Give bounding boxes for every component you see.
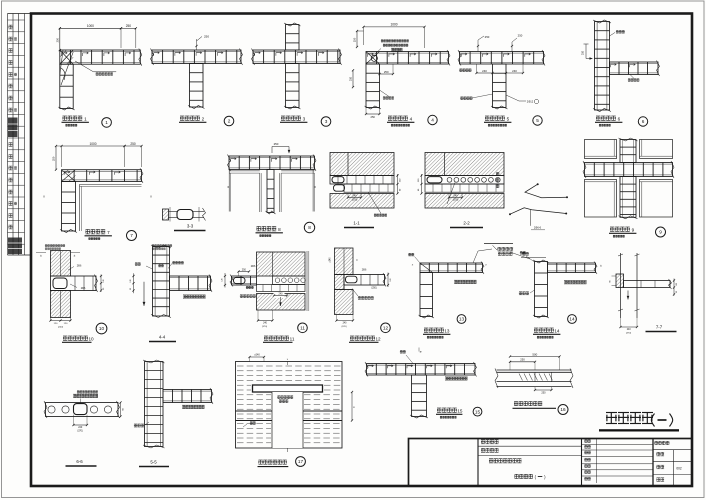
title block small col rows — [582, 444, 654, 446]
svg-text:(240): (240) — [58, 327, 63, 329]
detail 5 bubble — [533, 116, 542, 125]
detail 17 bubble — [296, 457, 306, 467]
detail 4 bottom dim — [366, 113, 380, 115]
section 4-4 boxed note — [184, 296, 186, 298]
detail 11 bottom dim — [258, 320, 273, 322]
detail 16 bars — [497, 369, 572, 371]
section 5-5 boxed note — [183, 406, 185, 408]
small note under detail 7 — [45, 245, 47, 247]
detail 1 bubble — [102, 118, 112, 128]
detail 6 leader note bottom — [630, 75, 634, 79]
section 7-7 bottom dim — [621, 326, 638, 328]
detail 14 leaders — [520, 252, 523, 255]
svg-text:6-6: 6-6 — [76, 459, 83, 464]
svg-text:10: 10 — [88, 336, 94, 341]
detail 11 wall face lines right — [306, 251, 308, 311]
detail 9 bubble — [656, 227, 666, 237]
detail 6 leader note top — [610, 33, 616, 37]
left title strip table — [7, 14, 9, 256]
detail 17 right dim — [351, 392, 353, 421]
svg-text:250: 250 — [274, 142, 279, 146]
section 2-2 leader — [447, 183, 455, 205]
detail 6 label — [596, 116, 600, 120]
svg-text:17: 17 — [298, 459, 304, 464]
svg-text:250: 250 — [520, 358, 525, 362]
svg-text:3: 3 — [303, 116, 306, 121]
detail 14 bubble — [568, 315, 577, 324]
detail 8 wall faces and ceiling lines — [259, 173, 261, 212]
svg-text:8: 8 — [308, 225, 311, 230]
svg-text:2: 2 — [202, 116, 205, 121]
detail 2 ring-beam tee — [152, 50, 241, 64]
detail 4 bubble — [428, 115, 437, 124]
detail 5 leader 2d12 — [506, 95, 526, 101]
svg-text:≥240: ≥240 — [254, 353, 260, 356]
detail 15 inverted tee — [367, 364, 476, 376]
section 7-7 arrow — [627, 291, 629, 300]
svg-text:7: 7 — [107, 230, 110, 235]
svg-text:250: 250 — [350, 76, 353, 81]
detail 10 label — [63, 336, 67, 340]
detail 9 horizontal beam — [585, 163, 673, 177]
detail 1 corner diagonals — [60, 50, 73, 64]
section 6-6 annotation — [77, 391, 79, 393]
svg-text:4: 4 — [431, 118, 434, 123]
svg-text:(250): (250) — [371, 287, 377, 289]
detail 17 center line — [287, 362, 289, 366]
detail 5 inner dims — [477, 72, 493, 74]
detail 8 label — [257, 227, 261, 231]
detail 4 leader note — [380, 90, 390, 97]
detail 2 dim 250 — [196, 39, 198, 50]
svg-text:14: 14 — [554, 328, 560, 333]
svg-text:250: 250 — [353, 37, 357, 42]
detail 4 inner dim 250 — [380, 73, 394, 75]
detail 17 top dim — [250, 356, 265, 358]
detail 16 bottom dim — [535, 389, 552, 391]
svg-text:1000: 1000 — [390, 23, 397, 27]
detail 13 corner beam — [420, 263, 483, 273]
section 2-2 wall hollow slab section — [425, 153, 504, 176]
detail 3 label — [281, 116, 285, 120]
sheet title big — [606, 413, 617, 424]
svg-text:15: 15 — [475, 409, 481, 414]
detail 1 ring-beam corner — [60, 27, 121, 29]
detail 3 bubble — [321, 117, 331, 127]
detail 4 label — [388, 116, 392, 120]
svg-text:10: 10 — [99, 326, 105, 331]
svg-text:2Φ6: 2Φ6 — [362, 269, 367, 272]
svg-text:ø: ø — [420, 350, 422, 354]
detail 11 circles band — [273, 276, 306, 285]
svg-text:250: 250 — [371, 115, 376, 119]
detail 10 right dims — [100, 275, 102, 293]
svg-text:2Φ6: 2Φ6 — [81, 287, 86, 290]
detail 7 bubble — [127, 231, 137, 241]
left strip text cells — [9, 25, 13, 29]
svg-text:2Φ6-6: 2Φ6-6 — [534, 226, 542, 230]
detail 9 label — [610, 227, 614, 231]
detail 16 label — [514, 402, 518, 406]
section 4-4 down arrow — [143, 282, 145, 306]
detail 11 lower band — [257, 285, 306, 292]
svg-text:5-5: 5-5 — [150, 460, 157, 465]
svg-text:II: II — [150, 195, 152, 199]
detail 17 ring beam band — [236, 410, 273, 412]
svg-text:12: 12 — [375, 336, 381, 341]
detail 17 center annotation — [278, 396, 281, 399]
detail 7 label — [86, 230, 90, 234]
left strip dense block upper — [8, 118, 18, 138]
svg-text:9: 9 — [659, 230, 662, 235]
svg-text:(370): (370) — [77, 431, 83, 433]
svg-text:6: 6 — [618, 116, 621, 121]
detail 8 dim 250 — [272, 147, 289, 154]
detail 3 ring-beam cross — [253, 50, 340, 64]
svg-text:15: 15 — [457, 408, 463, 413]
svg-text:240: 240 — [352, 194, 357, 197]
section 7-7 wall with beam — [620, 253, 622, 318]
svg-text:250: 250 — [126, 24, 132, 28]
svg-text:16: 16 — [560, 407, 566, 412]
detail 4 left dim — [352, 70, 354, 87]
detail 17 door opening — [272, 392, 303, 448]
svg-text:(370): (370) — [453, 199, 459, 202]
section 1-1 leader — [368, 192, 381, 213]
svg-text:14: 14 — [569, 317, 575, 322]
svg-text:250: 250 — [384, 70, 389, 74]
detail 4 ring-beam corner with notes — [364, 26, 425, 28]
detail 5 ring-beam tee with dims — [460, 52, 544, 65]
section 4-4 wall with beam — [153, 247, 170, 317]
title block right col labels — [655, 441, 658, 444]
detail 8 bubble — [304, 222, 314, 232]
detail 6 bubble — [638, 117, 647, 126]
section 2-2 left dims — [421, 174, 423, 194]
title block small col labels — [585, 440, 588, 443]
svg-text:5: 5 — [507, 116, 510, 121]
svg-text:240: 240 — [482, 69, 487, 73]
detail 5 dark note masonry — [460, 69, 463, 72]
detail 17 band label — [250, 422, 253, 425]
svg-text:250: 250 — [242, 268, 247, 271]
detail 15 bubble — [473, 407, 482, 416]
svg-text:≥240: ≥240 — [329, 257, 332, 263]
detail 13 label — [424, 328, 428, 332]
svg-text:002: 002 — [676, 467, 682, 471]
detail 14 dark note left — [519, 292, 522, 295]
section 4-4 leader notes — [146, 266, 153, 269]
detail 15 label — [437, 408, 441, 412]
detail 11 bubble — [298, 323, 308, 333]
detail 12 beam from hatched wall — [335, 248, 354, 275]
detail 11 label — [264, 336, 268, 340]
detail 16 bubble — [558, 405, 568, 415]
section 5-5 wall with beam — [145, 362, 164, 447]
svg-text:4-4: 4-4 — [159, 335, 166, 340]
detail 7 interior finish lines — [80, 183, 142, 185]
section 2-2 core circles — [447, 177, 452, 182]
title block texts — [481, 440, 485, 444]
svg-text:250: 250 — [204, 35, 209, 39]
svg-text:250: 250 — [518, 34, 523, 38]
svg-text:240: 240 — [453, 194, 458, 197]
svg-text:250: 250 — [52, 156, 56, 161]
detail 13 bubble — [457, 315, 466, 324]
svg-text:12: 12 — [383, 326, 389, 331]
detail 13 leaders — [409, 253, 412, 256]
section 3-3 slab piece — [163, 209, 169, 220]
detail 1 label — [63, 116, 67, 120]
section 2-2 lower band — [425, 184, 504, 192]
svg-text:6: 6 — [642, 119, 645, 124]
svg-text:3: 3 — [325, 119, 328, 124]
svg-text:7: 7 — [130, 233, 133, 238]
section 7-7 right dims — [673, 279, 675, 296]
svg-text:1-1: 1-1 — [353, 221, 360, 226]
detail 10 bottom dim — [51, 320, 71, 322]
svg-text:11: 11 — [300, 326, 305, 331]
svg-text:240: 240 — [78, 426, 83, 429]
detail 8 center wall core — [267, 170, 274, 213]
section 2-2 dim 240 — [449, 197, 462, 199]
svg-text:250: 250 — [541, 391, 546, 394]
left strip dense block lower — [8, 238, 22, 255]
svg-text:11: 11 — [290, 336, 295, 341]
section 1-1 right dims — [397, 174, 399, 194]
detail 6 left bent dim — [586, 44, 593, 59]
svg-text:2-2: 2-2 — [463, 221, 470, 226]
detail 9 vertical wall ladder — [620, 140, 636, 163]
detail 8 beam over wall joint — [229, 156, 315, 170]
svg-text:250: 250 — [130, 142, 136, 146]
section 6-6 bottom dim — [74, 424, 88, 426]
detail 11 dims and notes — [274, 293, 285, 299]
detail 2 bubble — [224, 116, 234, 126]
svg-text:3-3: 3-3 — [187, 224, 194, 229]
section 2-2 hollow band — [425, 176, 504, 185]
detail 5 dark note lower — [461, 97, 464, 100]
svg-text:II: II — [43, 195, 45, 199]
svg-text:1: 1 — [105, 120, 108, 125]
svg-text:1: 1 — [84, 116, 87, 121]
section 4-4 left dims — [133, 273, 135, 293]
svg-text:(370): (370) — [341, 326, 346, 328]
svg-text:250: 250 — [485, 35, 490, 39]
svg-text:9: 9 — [632, 227, 635, 232]
detail 12 label — [350, 336, 354, 340]
section 6-6 hollow core slab — [46, 403, 119, 417]
svg-text:8: 8 — [278, 227, 281, 232]
title block right col rows — [653, 449, 692, 451]
detail 10 bubble — [96, 323, 107, 334]
section 7-7 left block — [616, 274, 624, 288]
detail 11 slab bearing on hatched wall — [232, 276, 257, 285]
detail 12 bubble — [381, 323, 391, 333]
leader squiggle arrows group — [537, 183, 539, 185]
svg-text:(370): (370) — [262, 326, 267, 328]
detail 14 corner beam right — [535, 262, 548, 317]
svg-text:4: 4 — [410, 116, 413, 121]
svg-text:5: 5 — [536, 118, 539, 123]
detail 13 note below beam — [455, 281, 457, 283]
detail 16 lap splice — [510, 356, 560, 358]
svg-text:13: 13 — [459, 317, 465, 322]
detail 17 label — [259, 460, 263, 464]
detail 12 right dims — [387, 273, 389, 288]
section 6-6 right dim — [120, 403, 122, 417]
detail 11 left dims — [224, 273, 226, 288]
section 1-1 dim 240 — [348, 197, 361, 199]
title block verticals — [477, 439, 479, 487]
svg-text:500: 500 — [532, 352, 537, 356]
detail 15 leader — [400, 351, 403, 354]
detail 14 note below beam — [565, 281, 567, 283]
section 1-1 wall slab section — [330, 153, 394, 176]
section 1-1 lower band — [344, 184, 394, 192]
detail 10 leaders — [68, 267, 74, 271]
detail 7 corner with room interior — [62, 145, 125, 147]
section 1-1 top slab band — [330, 176, 394, 185]
small note under 3-3 — [152, 245, 154, 247]
svg-text:2Φ6: 2Φ6 — [77, 265, 82, 268]
svg-text:250: 250 — [582, 50, 585, 55]
detail 5 top dims — [478, 36, 484, 52]
svg-text:1000: 1000 — [87, 24, 94, 28]
svg-text:7-7: 7-7 — [656, 325, 663, 330]
svg-text:13: 13 — [444, 328, 450, 333]
svg-text:2: 2 — [228, 119, 231, 124]
svg-text:2Φ6: 2Φ6 — [251, 265, 256, 268]
section 5-5 dark note — [134, 424, 137, 427]
svg-text:250: 250 — [55, 37, 59, 42]
svg-text:240: 240 — [279, 292, 284, 295]
detail 1 leader note — [75, 61, 116, 72]
detail 9 large cross quadrant blocks — [585, 140, 617, 159]
detail 5 label — [485, 116, 489, 120]
vertical dim label right of section 2-2 — [496, 173, 499, 176]
detail 17 wall elevation with lintel — [236, 362, 343, 449]
svg-text:1000: 1000 — [89, 142, 96, 146]
detail 15 boxed note — [446, 377, 448, 379]
svg-text:2Φ12: 2Φ12 — [527, 100, 534, 104]
title block col2 rows — [478, 445, 582, 447]
title block outer — [409, 439, 693, 487]
detail 10 beam into hatched wall — [51, 251, 71, 277]
detail 2 label — [180, 116, 184, 120]
svg-text:240: 240 — [512, 69, 517, 73]
svg-text:(370): (370) — [626, 333, 631, 335]
detail 17 lintel — [253, 385, 323, 392]
svg-text:(370): (370) — [352, 199, 358, 202]
detail 12 bottom dim — [337, 320, 354, 322]
detail 6 wall tee side — [595, 22, 610, 111]
detail 14 label — [534, 328, 538, 332]
dark annotation ring beam as lintel — [484, 243, 513, 245]
